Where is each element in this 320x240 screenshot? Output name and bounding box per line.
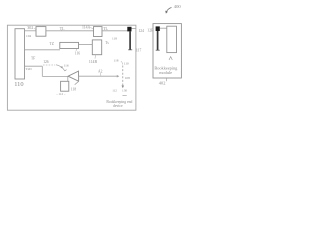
- svg-text:device: device: [113, 104, 123, 108]
- component box B: [94, 27, 103, 37]
- stub wire to border: [132, 28, 136, 30]
- svg-text:126: 126: [43, 60, 49, 64]
- svg-text:116: 116: [64, 63, 69, 67]
- svg-text:118: 118: [71, 87, 76, 91]
- leader from output down: [78, 76, 80, 81]
- wire: [102, 30, 128, 32]
- svg-text:104: 104: [26, 34, 31, 38]
- svg-text:110: 110: [124, 62, 129, 66]
- feedback box below op-amp: [61, 81, 69, 91]
- small mark below inner block: [169, 57, 172, 60]
- svg-text:402: 402: [159, 80, 166, 85]
- svg-text:TZ: TZ: [50, 42, 54, 46]
- svg-text:130: 130: [122, 88, 127, 92]
- svg-text:124: 124: [139, 29, 145, 33]
- component box A: [36, 27, 46, 37]
- svg-text:.. 112 ..: .. 112 ..: [56, 92, 66, 96]
- low wire from supply: [25, 65, 43, 67]
- svg-text:302: 302: [27, 25, 33, 30]
- svg-text:112: 112: [112, 89, 117, 93]
- stub wire node to inner block: [160, 27, 167, 29]
- svg-text:117: 117: [136, 48, 141, 52]
- power supply block (tall rect): [15, 29, 25, 79]
- electrode bar left: [129, 31, 131, 49]
- op-amp U1 (pointing left): [68, 71, 78, 81]
- svg-text:A2: A2: [98, 70, 103, 74]
- leader below module: [166, 78, 168, 81]
- dashed signal arrow: [122, 66, 124, 87]
- outer device box: [7, 25, 136, 110]
- small dash: [123, 94, 127, 96]
- electrode bar right: [157, 31, 159, 50]
- mid wire: [25, 49, 61, 51]
- electrode foot right: [156, 49, 160, 51]
- wire box to opamp input: [67, 76, 69, 81]
- svg-text:Ts: Ts: [105, 41, 109, 45]
- output wire with arrow: [79, 75, 118, 77]
- svg-text:TL: TL: [60, 27, 65, 31]
- component box D: [92, 40, 101, 55]
- component box C wide: [60, 42, 79, 48]
- svg-text:118: 118: [114, 59, 119, 63]
- svg-text:116: 116: [75, 51, 80, 55]
- svg-text:108: 108: [125, 76, 130, 80]
- wire C to D: [79, 44, 93, 46]
- svg-text:12B: 12B: [147, 29, 154, 33]
- electrode foot: [128, 49, 132, 51]
- wire to op-amp: [42, 75, 68, 77]
- node terminal left (black square): [127, 27, 131, 32]
- inner block: [167, 26, 177, 52]
- svg-text:114B: 114B: [89, 60, 98, 64]
- svg-text:114A: 114A: [82, 26, 91, 30]
- wire: [46, 30, 94, 32]
- svg-text:110: 110: [14, 81, 23, 88]
- wire top: [25, 30, 37, 32]
- svg-text:TxD: TxD: [25, 67, 32, 71]
- wire bend down: [41, 66, 43, 76]
- svg-text:TF: TF: [31, 56, 35, 60]
- node terminal right (black square): [156, 26, 160, 31]
- svg-text:118: 118: [112, 37, 117, 41]
- svg-text:module: module: [159, 70, 172, 75]
- svg-text:400: 400: [174, 4, 182, 9]
- bookkeeping module box: [153, 24, 181, 78]
